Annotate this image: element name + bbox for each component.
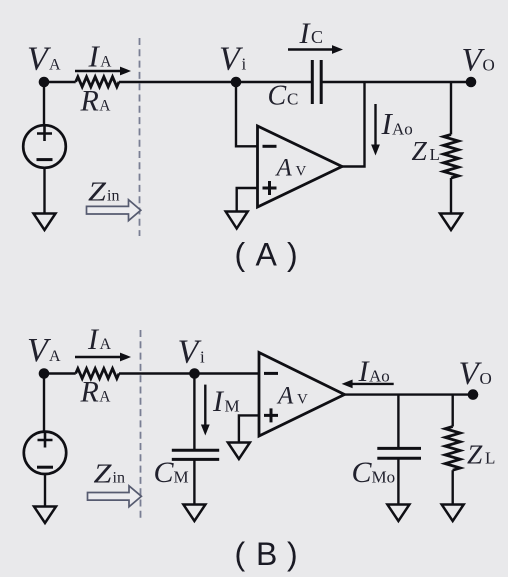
ground at source (A)	[34, 214, 56, 231]
svg-text:Z: Z	[88, 177, 107, 207]
svg-text:ZL: ZL	[412, 135, 440, 166]
current arrow IAo (A)	[371, 104, 380, 156]
wire ZL to ground (B)	[452, 470, 454, 504]
svg-text:Vi: Vi	[178, 334, 206, 371]
wire plus input to ground (A)	[237, 188, 258, 212]
node Vi (B)	[189, 368, 200, 379]
plus input symbol U1	[263, 181, 277, 195]
svg-text:IC: IC	[299, 17, 324, 50]
svg-text:AV: AV	[275, 155, 307, 182]
ground at opamp (B)	[228, 443, 250, 460]
ground at ZL (B)	[442, 505, 464, 522]
ground at source (B)	[34, 507, 56, 524]
svg-text:VA: VA	[27, 332, 61, 369]
voltage source VA (B)	[24, 432, 66, 474]
svg-text:IAo: IAo	[358, 355, 390, 388]
svg-text:IAo: IAo	[381, 106, 413, 141]
ground at opamp (A)	[226, 212, 248, 229]
wire Vi to CC (A)	[236, 81, 312, 83]
ground at CMo (B)	[387, 505, 409, 522]
current arrow IA (A)	[75, 67, 131, 76]
svg-text:VO: VO	[462, 43, 495, 79]
dashed boundary line (B)	[140, 330, 142, 520]
node VO (B)	[468, 389, 479, 400]
op-amp U2 (B)	[259, 353, 345, 437]
svg-text:IM: IM	[212, 385, 240, 418]
wire Vi to minus input (A)	[236, 82, 258, 146]
resistor ZL (A)	[444, 135, 459, 178]
svg-text:CC: CC	[268, 81, 299, 112]
resistor RA (A)	[76, 77, 119, 87]
wire CC to VO (A)	[321, 81, 471, 83]
wire opamp output to VO (B)	[345, 393, 474, 395]
svg-text:AV: AV	[276, 383, 308, 410]
svg-text:CM: CM	[154, 456, 189, 489]
current arrow IC	[288, 45, 343, 54]
svg-text:in: in	[113, 470, 125, 487]
wire source to ground (A)	[43, 168, 45, 214]
svg-text:RA: RA	[80, 376, 112, 409]
voltage source VA (A)	[23, 125, 66, 168]
minus input symbol U1	[263, 145, 277, 148]
wire RA to Vi (B)	[119, 372, 195, 374]
wire output to CMo (B)	[397, 395, 399, 449]
svg-text:in: in	[107, 188, 119, 205]
svg-text:IA: IA	[88, 39, 113, 74]
wire CM to ground (B)	[193, 459, 195, 504]
current arrow IAo (B)	[342, 380, 394, 389]
minus input symbol U2	[264, 372, 278, 375]
capacitor CM	[172, 450, 219, 459]
capacitor CC	[312, 60, 321, 104]
wire source to ground (B)	[44, 474, 46, 507]
current arrow IM (B)	[201, 385, 210, 436]
wire plus input to ground (B)	[239, 415, 259, 442]
node VA (A)	[39, 77, 50, 88]
svg-text:RA: RA	[80, 85, 112, 118]
svg-text:ZL: ZL	[467, 439, 495, 470]
wire node to source (A)	[43, 82, 45, 125]
svg-text:VA: VA	[27, 41, 61, 78]
wire opamp output (A)	[342, 82, 365, 167]
ground at ZL (A)	[440, 214, 462, 231]
resistor ZL (B)	[445, 427, 460, 471]
current arrow IA (B)	[75, 353, 131, 362]
wire VA to RA (B)	[44, 372, 76, 374]
svg-text:Z: Z	[94, 459, 113, 489]
node Vi (A)	[231, 77, 242, 88]
ground at CM (B)	[183, 505, 205, 522]
resistor RA (B)	[76, 369, 119, 379]
wire RA to Vi (A)	[119, 81, 236, 83]
svg-text:(A): (A)	[235, 237, 298, 273]
svg-text:VO: VO	[459, 356, 492, 392]
wire Vi to minus input (B)	[195, 372, 260, 374]
wire node to source (B)	[43, 374, 45, 432]
svg-text:IA: IA	[87, 323, 112, 356]
svg-text:CMo: CMo	[352, 456, 396, 489]
hollow arrow Zin (A)	[87, 200, 141, 221]
op-amp U1 (A)	[258, 126, 343, 207]
hollow arrow Zin (B)	[88, 486, 142, 507]
wire Vi to CM (B)	[193, 374, 195, 451]
node VO (A)	[466, 77, 477, 88]
node VA (B)	[39, 368, 50, 379]
wire VA to RA (A)	[44, 81, 76, 83]
wire VO to ZL (B)	[452, 395, 454, 427]
svg-text:(B): (B)	[235, 536, 298, 572]
wire ZL to ground (A)	[450, 178, 452, 214]
svg-text:Vi: Vi	[219, 41, 247, 78]
plus input symbol U2	[264, 408, 278, 422]
dashed boundary line (A)	[139, 38, 141, 236]
wire CMo to ground (B)	[397, 458, 399, 504]
wire VO to ZL (A)	[450, 82, 452, 135]
capacitor CMo	[377, 448, 421, 458]
